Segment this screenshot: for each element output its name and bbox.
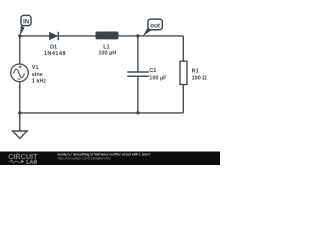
svg-text:100 µF: 100 µF xyxy=(149,75,167,81)
wire C1 branch lower xyxy=(137,76,139,113)
svg-text:D1: D1 xyxy=(50,45,57,51)
wire R1 branch lower xyxy=(182,84,184,113)
capacitor C1 xyxy=(127,72,149,76)
logo waveform xyxy=(9,160,21,163)
svg-text:100 µH: 100 µH xyxy=(98,51,116,57)
logo CIRCUIT xyxy=(9,154,38,159)
logo arrow xyxy=(21,160,24,163)
ground xyxy=(13,131,27,138)
wire R1 branch upper xyxy=(182,36,184,62)
node junction C1 bottom xyxy=(136,111,139,114)
svg-text:C1: C1 xyxy=(149,68,156,74)
svg-text:IN: IN xyxy=(23,20,29,26)
flag out box xyxy=(148,19,162,30)
flag IN box xyxy=(21,15,31,25)
svg-text:1N4148: 1N4148 xyxy=(44,51,66,57)
node junction bottom-left xyxy=(18,111,21,114)
node junction top-left xyxy=(18,34,21,37)
wire left vertical (node to V1 top) xyxy=(19,36,21,64)
footer bar xyxy=(0,152,220,166)
svg-text:http://circuitlab.com/c/5kq8wm: http://circuitlab.com/c/5kq8wm4t2 xyxy=(58,157,111,161)
wire top rail xyxy=(20,35,184,37)
logo LAB xyxy=(27,160,37,164)
wire V1 bottom to bottom rail xyxy=(19,82,21,113)
flag IN pointer xyxy=(20,25,25,36)
svg-text:100 Ω: 100 Ω xyxy=(192,76,208,82)
wire C1 branch upper xyxy=(137,36,139,72)
node junction C1 top xyxy=(136,34,139,37)
svg-text:R1: R1 xyxy=(192,68,199,74)
wire bottom rail xyxy=(20,112,184,114)
wire ground stem xyxy=(19,113,21,131)
resistor R1 xyxy=(180,61,187,84)
svg-text:1 kHz: 1 kHz xyxy=(32,79,47,85)
diode D1 xyxy=(49,32,58,40)
flag out pointer xyxy=(143,28,151,36)
voltage source V1 xyxy=(11,64,29,82)
svg-text:out: out xyxy=(150,23,160,30)
svg-text:V1: V1 xyxy=(32,65,39,71)
inductor L1 xyxy=(96,32,119,40)
svg-text:sine: sine xyxy=(32,72,43,78)
